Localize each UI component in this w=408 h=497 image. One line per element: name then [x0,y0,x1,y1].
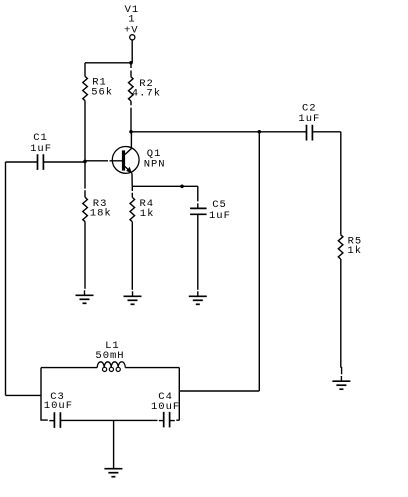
node output/tank junction [258,130,262,134]
capacitor C3 10uF [44,391,73,428]
wire R4 top lead [131,186,133,197]
svg-text:1uF: 1uF [30,143,52,155]
wire emitter lead [131,173,133,186]
wire V1 to divider junction [131,40,133,63]
wire input column down to tank [5,162,7,395]
node emitter wire junction [180,185,184,189]
wire tank box left edge [41,368,48,421]
wire R1 bottom lead to base node [84,101,86,162]
svg-text:1uF: 1uF [209,210,231,222]
svg-text:1uF: 1uF [298,113,320,125]
svg-text:18k: 18k [90,207,112,219]
capacitor C4 10uF [151,391,180,427]
node junction V1/R1/R2 [129,61,133,65]
svg-text:10uF: 10uF [44,400,73,412]
wire output horizontal to C2 [131,131,307,133]
svg-text:+V: +V [124,24,139,36]
wire input left segment [6,161,38,163]
wire C5 bottom lead [197,215,199,290]
wire top horizontal R1 to junction [85,62,131,64]
resistor R1 56k [83,76,113,100]
wire R3 bottom lead [84,222,86,289]
wire C4 right lead [176,419,179,421]
wire output down to tank [258,132,260,391]
transistor Q1 NPN [112,147,165,174]
svg-text:50mH: 50mH [95,350,124,362]
resistor R3 18k [83,197,112,221]
ground below C5 [189,291,207,304]
svg-text:NPN: NPN [144,159,166,171]
wire tank box top right [125,367,179,369]
wire C5 top lead [197,186,199,207]
wire tank box top left [41,367,97,369]
node base junction C1/R1/R3 [83,160,87,164]
ground below R5 [332,376,350,389]
inductor L1 50mH [95,340,125,372]
svg-text:1k: 1k [140,208,155,220]
wire R2 bottom lead to collector node [130,101,132,132]
wire R5 top lead [340,132,342,235]
node collector/output junction [129,130,133,134]
wire C1 to base node [43,161,85,163]
wire R3 top lead [84,162,86,197]
ground tank center [104,468,122,477]
ground below R4 [124,291,142,304]
wire center ground stem [113,420,115,468]
capacitor C1 1uF [30,132,52,170]
svg-text:10uF: 10uF [151,401,180,413]
wire tank right connector [179,390,259,392]
resistor R2 4.7k [129,77,162,101]
svg-text:56k: 56k [91,86,113,98]
wire tank box right edge [178,368,180,421]
wire R2 top lead [130,63,132,77]
wire base lead [85,160,122,162]
wire collector lead [130,132,132,149]
wire tank left connector [6,394,42,396]
resistor R4 1k [130,197,154,221]
wire emitter horizontal to C5 [132,185,198,187]
wire R1 top lead [84,63,86,77]
ground below R3 [76,290,94,303]
capacitor C5 1uF [190,199,231,222]
wire R5 bottom lead [340,259,343,374]
power terminal V1 [124,4,139,40]
wire C2 to R5 column [312,131,340,133]
wire R4 bottom lead [131,222,133,290]
capacitor C2 1uF [298,102,320,140]
resistor R5 1k [338,235,362,259]
svg-text:4.7k: 4.7k [132,87,161,99]
svg-text:1k: 1k [347,245,362,257]
wire tank bottom between C3 and C4 [61,419,158,421]
